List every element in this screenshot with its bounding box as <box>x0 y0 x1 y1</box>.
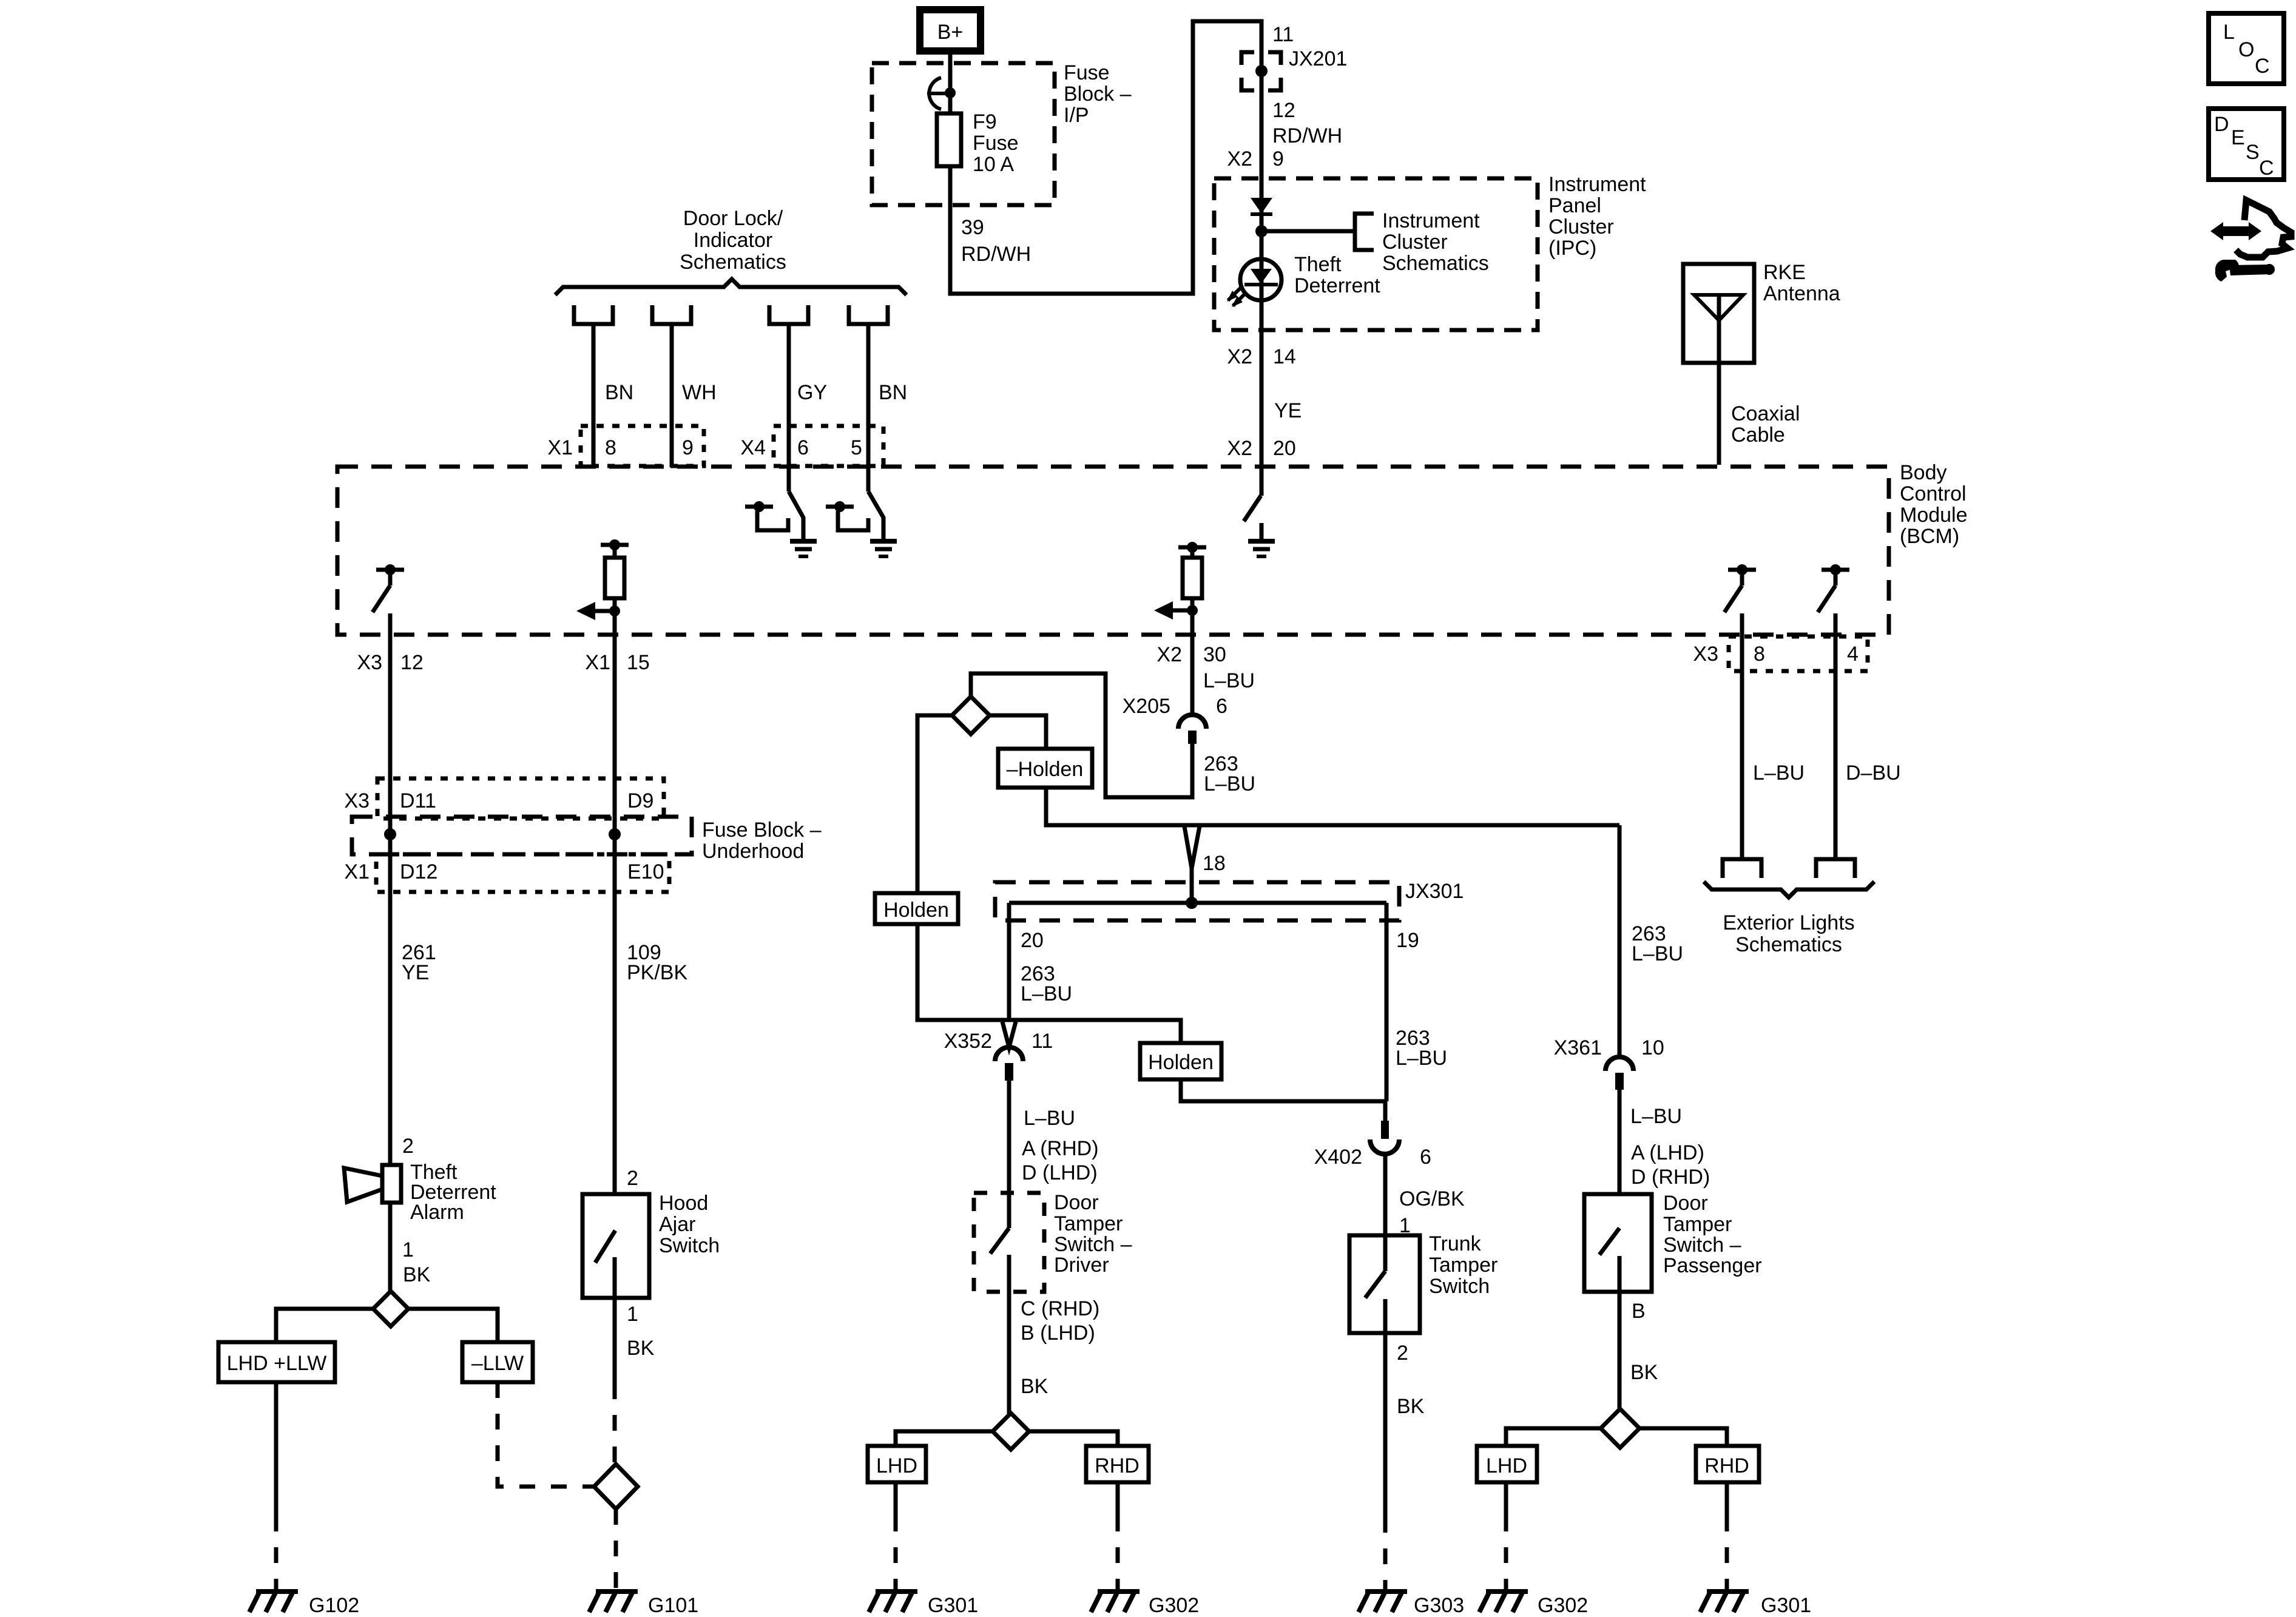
svg-text:Tamper: Tamper <box>1054 1212 1123 1235</box>
svg-text:8: 8 <box>605 436 616 459</box>
wire LHD to G301 <box>894 1482 898 1591</box>
connector U to exterior lights 2 <box>1816 859 1855 878</box>
svg-text:Exterior Lights: Exterior Lights <box>1723 911 1854 934</box>
svg-text:8: 8 <box>1754 643 1765 666</box>
svg-text:S: S <box>2246 141 2260 164</box>
wire X3-12 down to alarm <box>388 613 393 1165</box>
wire X1-15 down to hood switch <box>613 598 617 1230</box>
splice S4 diamond <box>993 1413 1029 1450</box>
svg-text:I/P: I/P <box>1064 104 1089 127</box>
svg-text:LHD +LLW: LHD +LLW <box>227 1352 327 1375</box>
svg-text:G301: G301 <box>928 1594 978 1617</box>
svg-text:X3: X3 <box>344 789 370 812</box>
fuse block underhood connector row X1 D12 E10 <box>344 854 669 892</box>
svg-text:RD/WH: RD/WH <box>1272 124 1342 147</box>
svg-text:Coaxial: Coaxial <box>1731 402 1800 425</box>
connector U to exterior lights 1 <box>1723 859 1761 878</box>
LHD box passenger <box>1477 1446 1537 1482</box>
svg-text:Alarm: Alarm <box>410 1201 464 1224</box>
wire <box>670 324 674 467</box>
svg-text:X3: X3 <box>1693 643 1718 666</box>
svg-text:(BCM): (BCM) <box>1900 525 1959 548</box>
svg-text:6: 6 <box>1420 1146 1431 1169</box>
svg-text:11: 11 <box>1272 23 1294 46</box>
svg-text:Block –: Block – <box>1064 83 1132 106</box>
BCM driver switch for X4-5 <box>826 491 883 541</box>
IPC label <box>1548 173 1646 260</box>
ground G302 passenger <box>1479 1592 1588 1617</box>
wire RHD to G302 <box>1116 1482 1120 1591</box>
door tamper switch passenger <box>1584 1192 1762 1292</box>
svg-text:Underhood: Underhood <box>702 840 804 863</box>
svg-text:Control: Control <box>1900 482 1967 505</box>
svg-text:E: E <box>2231 126 2245 149</box>
svg-text:BK: BK <box>1021 1375 1048 1398</box>
door lock / indicator schematics brace <box>555 207 907 295</box>
svg-text:G102: G102 <box>309 1594 359 1617</box>
svg-text:L–BU: L–BU <box>1203 669 1255 692</box>
theft deterrent LED indicator <box>1227 253 1380 307</box>
connector U to door lock schematic 3 <box>769 305 808 324</box>
fuse block I/P dashed box <box>872 63 1055 205</box>
svg-text:L–BU: L–BU <box>1024 1107 1075 1130</box>
svg-text:Fuse: Fuse <box>1064 61 1110 84</box>
svg-text:Switch: Switch <box>659 1234 720 1257</box>
svg-text:19: 19 <box>1396 929 1419 952</box>
svg-text:BN: BN <box>879 381 907 404</box>
svg-text:L–BU: L–BU <box>1396 1047 1447 1070</box>
wire colour labels BN WH GY BN <box>605 381 907 404</box>
BCM output arrow X1-15 <box>576 602 620 620</box>
-LLW box <box>462 1342 533 1382</box>
svg-text:15: 15 <box>627 651 650 674</box>
svg-text:L–BU: L–BU <box>1204 772 1255 795</box>
svg-text:LHD: LHD <box>1486 1454 1527 1477</box>
svg-text:1: 1 <box>627 1303 638 1326</box>
Holden box <box>875 893 958 924</box>
svg-text:Schematics: Schematics <box>680 251 786 274</box>
wire splice to LHD +LLW <box>276 1309 373 1342</box>
wire X352 to driver door switch <box>1007 1081 1011 1228</box>
svg-text:Door Lock/: Door Lock/ <box>683 207 783 230</box>
svg-text:BN: BN <box>605 381 633 404</box>
svg-text:Hood: Hood <box>659 1192 708 1215</box>
-Holden box <box>998 749 1092 788</box>
pin X2 14 <box>1227 345 1295 368</box>
svg-text:Schematics: Schematics <box>1382 252 1489 275</box>
wire label 261 YE upper <box>402 941 436 984</box>
svg-text:Switch: Switch <box>1429 1275 1490 1298</box>
wire label 109 PK/BK <box>627 941 687 984</box>
svg-text:10 A: 10 A <box>973 153 1014 176</box>
service tool icon <box>2210 200 2291 282</box>
wire label 12 RD/WH <box>1272 99 1342 147</box>
svg-text:OG/BK: OG/BK <box>1399 1187 1465 1210</box>
svg-text:Cluster: Cluster <box>1548 215 1614 238</box>
svg-text:D (RHD): D (RHD) <box>1631 1166 1710 1189</box>
svg-text:F9: F9 <box>973 110 997 133</box>
svg-text:Holden: Holden <box>1148 1051 1214 1074</box>
svg-text:Tamper: Tamper <box>1429 1254 1497 1277</box>
svg-text:10: 10 <box>1641 1036 1664 1059</box>
battery feed B+ box <box>920 10 981 51</box>
svg-text:L: L <box>2223 21 2235 44</box>
svg-text:L–BU: L–BU <box>1630 1105 1682 1128</box>
pin label A (RHD) D (LHD) <box>1022 1137 1099 1184</box>
JX301 internal bus wire <box>1009 901 1386 905</box>
svg-text:D (LHD): D (LHD) <box>1022 1161 1098 1184</box>
wire X402 to trunk switch <box>1383 1153 1388 1235</box>
wire LHD passenger to G302 <box>1504 1482 1508 1591</box>
svg-text:A (RHD): A (RHD) <box>1022 1137 1099 1160</box>
Holden box 2 <box>1140 1043 1221 1079</box>
DESC corner icon <box>2209 109 2284 180</box>
svg-text:D12: D12 <box>400 860 437 883</box>
wire <box>787 324 791 491</box>
svg-text:C: C <box>2259 157 2274 180</box>
svg-text:20: 20 <box>1273 437 1296 460</box>
svg-text:1: 1 <box>402 1238 414 1261</box>
wire -Holden to long run <box>1046 788 1619 825</box>
pin label C (RHD) B (LHD) <box>1021 1297 1099 1345</box>
fuse block underhood dashed box <box>352 817 822 863</box>
wire S4 to RHD <box>1029 1431 1118 1446</box>
splice S3 diamond <box>952 697 990 734</box>
pin label X2 30 <box>1156 643 1226 666</box>
ground G303 <box>1359 1592 1464 1617</box>
svg-text:RKE: RKE <box>1763 261 1806 284</box>
trunk tamper switch <box>1349 1232 1497 1333</box>
wire splice S2 to G101 <box>614 1509 618 1591</box>
svg-text:WH: WH <box>682 381 717 404</box>
LHD +LLW box <box>218 1342 335 1382</box>
svg-text:C: C <box>2255 55 2270 78</box>
wire LHD+LLW to G102 <box>274 1382 279 1591</box>
svg-text:RD/WH: RD/WH <box>961 243 1031 266</box>
svg-text:X1: X1 <box>344 860 370 883</box>
wire X2-30 to X205 <box>1190 598 1195 715</box>
connector box X4 pins 6 5 <box>740 426 883 466</box>
svg-text:X3: X3 <box>357 651 382 674</box>
BCM switch X3-12 <box>373 564 404 612</box>
svg-text:O: O <box>2238 38 2254 61</box>
ground G301 passenger <box>1700 1592 1811 1617</box>
svg-text:5: 5 <box>851 436 862 459</box>
svg-text:X1: X1 <box>585 651 610 674</box>
svg-text:L–BU: L–BU <box>1753 761 1805 785</box>
diode D1 in IPC <box>1251 198 1272 214</box>
BCM switch for X2-20 <box>1244 496 1261 541</box>
LOC corner icon <box>2209 13 2284 84</box>
pin 19 wire <box>1386 903 1419 1101</box>
svg-text:30: 30 <box>1203 643 1226 666</box>
svg-text:G303: G303 <box>1414 1594 1464 1617</box>
wire Holden 2 to X402 <box>1181 1079 1386 1101</box>
svg-text:18: 18 <box>1203 852 1226 875</box>
svg-text:2: 2 <box>402 1135 414 1158</box>
svg-text:Switch –: Switch – <box>1663 1234 1741 1257</box>
pin 2 and BK trunk <box>1397 1342 1425 1418</box>
svg-text:(IPC): (IPC) <box>1548 237 1596 260</box>
svg-text:Driver: Driver <box>1054 1254 1109 1277</box>
svg-text:X4: X4 <box>740 436 766 459</box>
ground G101 <box>589 1592 698 1617</box>
wire X205 to splice S3 <box>971 673 1192 797</box>
svg-text:Indicator: Indicator <box>694 229 772 252</box>
junction block JX301 dashed box <box>995 880 1464 920</box>
wire label 263 L-BU pin20 <box>1021 962 1072 1005</box>
svg-text:Switch –: Switch – <box>1054 1233 1132 1256</box>
svg-text:RHD: RHD <box>1704 1454 1749 1477</box>
svg-text:Ajar: Ajar <box>659 1213 695 1236</box>
svg-text:X205: X205 <box>1123 695 1170 718</box>
connector box X3 pins 8 4 <box>1693 636 1868 671</box>
svg-text:39: 39 <box>961 216 984 239</box>
signal ground for X4-6 <box>790 541 817 556</box>
svg-text:Cluster: Cluster <box>1382 231 1448 254</box>
wire B+ to fuse to JX201 <box>950 21 1261 496</box>
svg-text:D: D <box>2214 113 2229 136</box>
splice S2 diamond <box>594 1464 638 1509</box>
svg-text:X2: X2 <box>1156 643 1182 666</box>
svg-text:A (LHD): A (LHD) <box>1631 1141 1704 1164</box>
svg-text:12: 12 <box>1272 99 1295 122</box>
svg-text:2: 2 <box>1397 1342 1408 1365</box>
RKE antenna <box>1683 261 1840 363</box>
splice S5 diamond <box>1601 1409 1639 1448</box>
svg-text:X2: X2 <box>1227 147 1252 170</box>
wire Holden to X352 node <box>917 924 1009 1020</box>
pin 20 wire <box>1009 903 1044 1020</box>
instrument panel cluster dashed box <box>1214 178 1538 330</box>
wire RHD passenger to G301 <box>1725 1482 1729 1591</box>
wire node to Holden 2 <box>1009 1020 1181 1043</box>
in-line connector X402-6 <box>1314 1101 1431 1169</box>
wire S3 to Holden <box>917 715 952 893</box>
BCM output arrow X2-30 <box>1154 601 1198 619</box>
svg-text:2: 2 <box>627 1167 638 1190</box>
wire trunk switch to G303 <box>1383 1333 1388 1591</box>
svg-text:E10: E10 <box>627 860 664 883</box>
fuse clip contact <box>927 78 956 109</box>
door tamper switch driver dashed box <box>974 1191 1132 1292</box>
svg-text:BK: BK <box>1397 1395 1425 1418</box>
ground G102 <box>249 1592 359 1617</box>
svg-text:4: 4 <box>1847 643 1859 666</box>
hood ajar switch <box>582 1167 720 1360</box>
svg-text:D9: D9 <box>627 789 653 812</box>
pin label X3 12 <box>357 651 423 674</box>
RHD box driver <box>1086 1446 1149 1482</box>
wire long run down to X361 <box>1618 825 1622 1057</box>
signal ground for X2-20 <box>1248 541 1275 556</box>
wire passenger switch to splice S5 <box>1618 1292 1622 1409</box>
LHD box driver <box>868 1446 926 1482</box>
svg-text:D–BU: D–BU <box>1846 761 1901 785</box>
svg-text:BK: BK <box>1630 1361 1658 1384</box>
pin label A (LHD) D (RHD) <box>1631 1141 1710 1189</box>
connector U to door lock schematic 2 <box>652 305 691 324</box>
svg-text:B (LHD): B (LHD) <box>1021 1322 1095 1345</box>
svg-text:Theft: Theft <box>1294 253 1342 276</box>
wire X361 to passenger switch <box>1618 1090 1622 1228</box>
svg-text:Door: Door <box>1663 1192 1708 1215</box>
svg-text:PK/BK: PK/BK <box>627 961 687 984</box>
theft deterrent alarm <box>344 1135 496 1286</box>
BCM switch X3-8 <box>1724 564 1756 612</box>
svg-text:Tamper: Tamper <box>1663 1213 1732 1236</box>
wire driver switch to splice S4 <box>1007 1292 1011 1414</box>
connector box X1 pins 8 9 <box>547 426 704 466</box>
svg-text:LHD: LHD <box>876 1454 917 1477</box>
ground G301 <box>869 1592 978 1617</box>
BCM driver switch for X4-6 <box>745 491 803 541</box>
exterior lights wire X3-8 <box>1740 613 1744 859</box>
wire splice to -LLW <box>408 1309 498 1342</box>
feed arrow 18 into JX301 <box>1184 826 1226 903</box>
BCM switch X3-4 <box>1818 564 1849 612</box>
splice S1 diamond <box>373 1291 408 1326</box>
svg-text:GY: GY <box>797 381 827 404</box>
svg-text:Passenger: Passenger <box>1663 1254 1762 1277</box>
svg-text:YE: YE <box>1274 399 1302 422</box>
wire -LLW dashed to splice S2 <box>498 1382 594 1487</box>
wire alarm to splice <box>388 1203 393 1292</box>
svg-text:Body: Body <box>1900 461 1947 484</box>
wire label 263 L-BU pin19 <box>1396 1027 1447 1070</box>
in-line connector X361-10 <box>1554 1036 1664 1090</box>
svg-text:Panel: Panel <box>1548 194 1601 217</box>
svg-text:X2: X2 <box>1227 345 1252 368</box>
svg-text:Antenna: Antenna <box>1763 282 1840 305</box>
svg-text:9: 9 <box>682 436 694 459</box>
junction JX201 <box>1241 23 1347 90</box>
svg-text:BK: BK <box>403 1263 431 1286</box>
svg-text:BK: BK <box>627 1337 655 1360</box>
svg-text:20: 20 <box>1021 929 1044 952</box>
svg-text:D11: D11 <box>400 789 436 812</box>
wire <box>592 324 596 467</box>
ground G302 <box>1091 1592 1199 1617</box>
wire S5 to LHD passenger <box>1506 1428 1601 1446</box>
BCM label <box>1900 461 1968 548</box>
connector U to door lock schematic 4 <box>849 305 888 324</box>
wire <box>866 324 871 491</box>
node to instrument cluster schematics <box>1255 209 1489 275</box>
wire label 263 L-BU below X205 <box>1204 752 1255 795</box>
svg-text:G302: G302 <box>1149 1594 1199 1617</box>
coaxial cable wire <box>1719 295 1800 465</box>
svg-text:Fuse: Fuse <box>973 132 1019 155</box>
svg-text:Cable: Cable <box>1731 424 1785 447</box>
svg-text:Schematics: Schematics <box>1735 933 1842 956</box>
svg-text:Deterrent: Deterrent <box>1294 274 1380 297</box>
svg-text:X352: X352 <box>944 1030 992 1053</box>
svg-text:6: 6 <box>797 436 809 459</box>
svg-text:Door: Door <box>1054 1191 1099 1214</box>
svg-text:14: 14 <box>1273 345 1296 368</box>
svg-text:Trunk: Trunk <box>1429 1232 1482 1255</box>
svg-text:YE: YE <box>402 961 429 984</box>
svg-text:JX201: JX201 <box>1289 47 1347 70</box>
wire label 263 L-BU passenger <box>1632 922 1683 965</box>
svg-text:–LLW: –LLW <box>471 1352 524 1375</box>
svg-text:G301: G301 <box>1761 1594 1811 1617</box>
fuse block underhood connector row X3 D11 D9 <box>344 778 664 819</box>
svg-text:X402: X402 <box>1314 1146 1362 1169</box>
wire label OG/BK and pin 1 <box>1399 1187 1465 1237</box>
body control module BCM dashed box <box>337 467 1889 635</box>
svg-text:Fuse Block –: Fuse Block – <box>702 819 822 842</box>
svg-text:X2: X2 <box>1227 437 1252 460</box>
wire hood switch to splice S2 <box>613 1298 617 1464</box>
wire S4 to LHD <box>896 1431 993 1446</box>
wire label 39 RD/WH <box>961 216 1031 266</box>
svg-text:11: 11 <box>1032 1030 1053 1053</box>
RHD box passenger <box>1696 1446 1759 1482</box>
svg-text:Instrument: Instrument <box>1548 173 1646 196</box>
exterior lights wire X3-4 <box>1834 613 1838 859</box>
exterior lights schematics brace <box>1704 882 1874 956</box>
wire S3 to -Holden to trunk row <box>990 715 1046 749</box>
fuse block I/P label <box>1064 61 1132 127</box>
svg-text:9: 9 <box>1272 147 1284 170</box>
svg-text:Holden: Holden <box>883 899 949 922</box>
svg-text:RHD: RHD <box>1095 1454 1140 1477</box>
svg-text:B+: B+ <box>937 21 964 44</box>
svg-text:G302: G302 <box>1538 1594 1588 1617</box>
BCM resistor above X1-15 <box>601 539 629 598</box>
svg-text:X361: X361 <box>1554 1036 1602 1059</box>
svg-text:Module: Module <box>1900 504 1968 527</box>
in-line connector X205-6 <box>1123 695 1227 744</box>
connector U to door lock schematic 1 <box>574 305 613 324</box>
in-line connector X352-11 <box>944 1030 1053 1081</box>
svg-text:C (RHD): C (RHD) <box>1021 1297 1099 1320</box>
feed arrow into X352 <box>1002 1022 1016 1047</box>
BCM resistor above X2-30 <box>1178 542 1206 598</box>
svg-text:L–BU: L–BU <box>1632 942 1683 965</box>
pin X2 9 <box>1227 147 1284 170</box>
svg-text:X1: X1 <box>547 436 573 459</box>
pin X2 20 <box>1227 437 1295 460</box>
svg-text:Instrument: Instrument <box>1382 209 1480 232</box>
JX301 node dot <box>1186 897 1198 909</box>
fuse F9 10A <box>937 110 1019 176</box>
svg-text:G101: G101 <box>648 1594 698 1617</box>
svg-text:JX301: JX301 <box>1405 880 1464 903</box>
wire S5 to RHD passenger <box>1639 1428 1727 1446</box>
svg-text:L–BU: L–BU <box>1021 982 1072 1005</box>
wire labels L-BU D-BU <box>1753 761 1901 785</box>
svg-text:–Holden: –Holden <box>1007 758 1084 781</box>
svg-text:6: 6 <box>1216 695 1227 718</box>
pin label X1 15 <box>585 651 649 674</box>
signal ground for X4-5 <box>870 541 897 556</box>
svg-text:12: 12 <box>400 651 424 674</box>
svg-text:B: B <box>1632 1300 1646 1323</box>
